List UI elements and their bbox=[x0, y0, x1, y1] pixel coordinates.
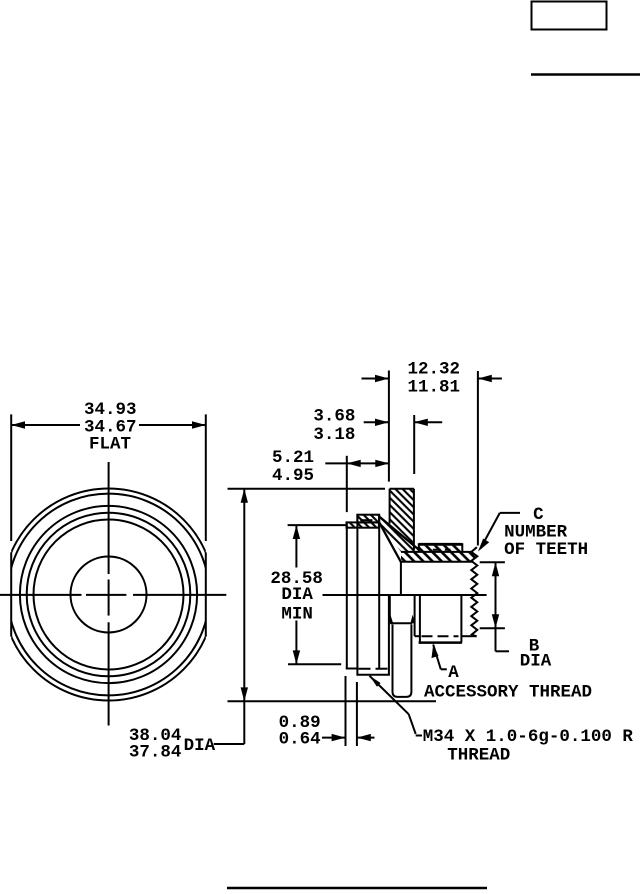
vertical centerline bbox=[108, 462, 110, 574]
circle c4 bbox=[27, 513, 191, 677]
band top line bbox=[401, 551, 472, 553]
footer rule bottom center bbox=[227, 887, 487, 890]
svg-text:3.68: 3.68 bbox=[313, 407, 355, 427]
circle c5 bbox=[34, 520, 184, 670]
leader C NUMBER OF TEETH bbox=[481, 513, 521, 549]
thread chamfer triangles bbox=[388, 615, 393, 624]
svg-text:4.95: 4.95 bbox=[272, 466, 314, 486]
left flat line bbox=[10, 552, 12, 636]
hatched flange + cone bbox=[379, 489, 414, 552]
thread runout dashed bbox=[359, 668, 388, 670]
svg-text:11.81: 11.81 bbox=[408, 378, 461, 398]
svg-text:0.64: 0.64 bbox=[279, 730, 321, 750]
flange outline bbox=[390, 488, 414, 490]
rear barrel bottom small step bbox=[346, 668, 358, 670]
shell edge below center bbox=[414, 595, 416, 637]
teeth strip pitch dash bbox=[433, 549, 451, 551]
side view centerline bbox=[323, 594, 487, 596]
svg-text:DIA: DIA bbox=[520, 651, 552, 671]
rear barrel left edge bbox=[346, 522, 348, 668]
svg-text:M34 X 1.0-6g-0.100 R: M34 X 1.0-6g-0.100 R bbox=[423, 727, 634, 747]
A cylinder left edge bbox=[419, 595, 421, 644]
title block box top right bbox=[532, 2, 607, 30]
svg-text:THREAD: THREAD bbox=[447, 746, 510, 766]
dim 12.32/11.81 bbox=[362, 371, 502, 546]
circle c3 bbox=[20, 506, 197, 683]
teeth strip left edge bbox=[418, 543, 420, 552]
dim 0.89/0.64 bbox=[322, 676, 375, 746]
M34 crest right line below center bbox=[388, 595, 390, 676]
svg-text:DIA: DIA bbox=[184, 736, 216, 756]
horizontal centerline bbox=[0, 594, 82, 596]
svg-text:A: A bbox=[448, 663, 459, 683]
A cylinder bottom face bbox=[419, 641, 462, 644]
svg-text:DIA: DIA bbox=[281, 585, 313, 605]
circle c2 flattened bbox=[8, 494, 210, 696]
dim 28.58 DIA MIN bbox=[288, 525, 348, 664]
outer circle c1 flattened bbox=[3, 489, 215, 701]
M34 barrel rounded outline bbox=[393, 625, 412, 697]
band left drop edge bbox=[400, 562, 402, 595]
svg-text:MIN: MIN bbox=[281, 605, 313, 625]
cap internal dash bbox=[360, 519, 372, 521]
hidden shell bottom line: stub, dashes, solid bbox=[415, 635, 420, 637]
header rule top right bbox=[531, 73, 640, 76]
M34 shoulder line bbox=[390, 622, 412, 624]
svg-text:ACCESSORY THREAD: ACCESSORY THREAD bbox=[424, 683, 592, 703]
band bottom line bbox=[401, 561, 472, 563]
hatched thin strip bbox=[347, 522, 379, 527]
svg-text:37.84: 37.84 bbox=[129, 743, 182, 763]
leader M34 thread bbox=[370, 676, 423, 736]
svg-text:FLAT: FLAT bbox=[89, 435, 131, 455]
svg-text:OF TEETH: OF TEETH bbox=[504, 540, 588, 560]
hatched band bbox=[401, 552, 476, 562]
dim 38.04/37.84 DIA bbox=[214, 489, 436, 744]
A cylinder right edge bbox=[460, 595, 462, 643]
teeth strip right edge bbox=[461, 543, 463, 552]
center hole circle bbox=[71, 557, 147, 633]
dim B DIA bbox=[480, 562, 509, 651]
dim 3.68/3.18 bbox=[364, 415, 443, 474]
cone outer edge A bbox=[379, 516, 419, 550]
dim 5.21/4.95 bbox=[325, 456, 389, 512]
cone inner edge B bbox=[379, 523, 401, 562]
right flat line bbox=[205, 552, 207, 636]
hatched teeth strip bbox=[419, 546, 463, 552]
dimension 34.93/34.67 FLAT bbox=[11, 414, 206, 541]
rear barrel right edge bbox=[378, 515, 380, 669]
teeth strip bold top bbox=[419, 543, 463, 546]
svg-text:12.32: 12.32 bbox=[408, 359, 461, 379]
rear barrel thread line bbox=[356, 515, 358, 675]
svg-text:3.18: 3.18 bbox=[313, 425, 355, 445]
hatched cap rect bbox=[357, 515, 379, 523]
M34 crest left line below center bbox=[389, 595, 391, 619]
rear barrel bottom face bbox=[356, 674, 390, 676]
leader A bbox=[433, 645, 447, 670]
thread zigzag right edge bbox=[471, 547, 477, 636]
